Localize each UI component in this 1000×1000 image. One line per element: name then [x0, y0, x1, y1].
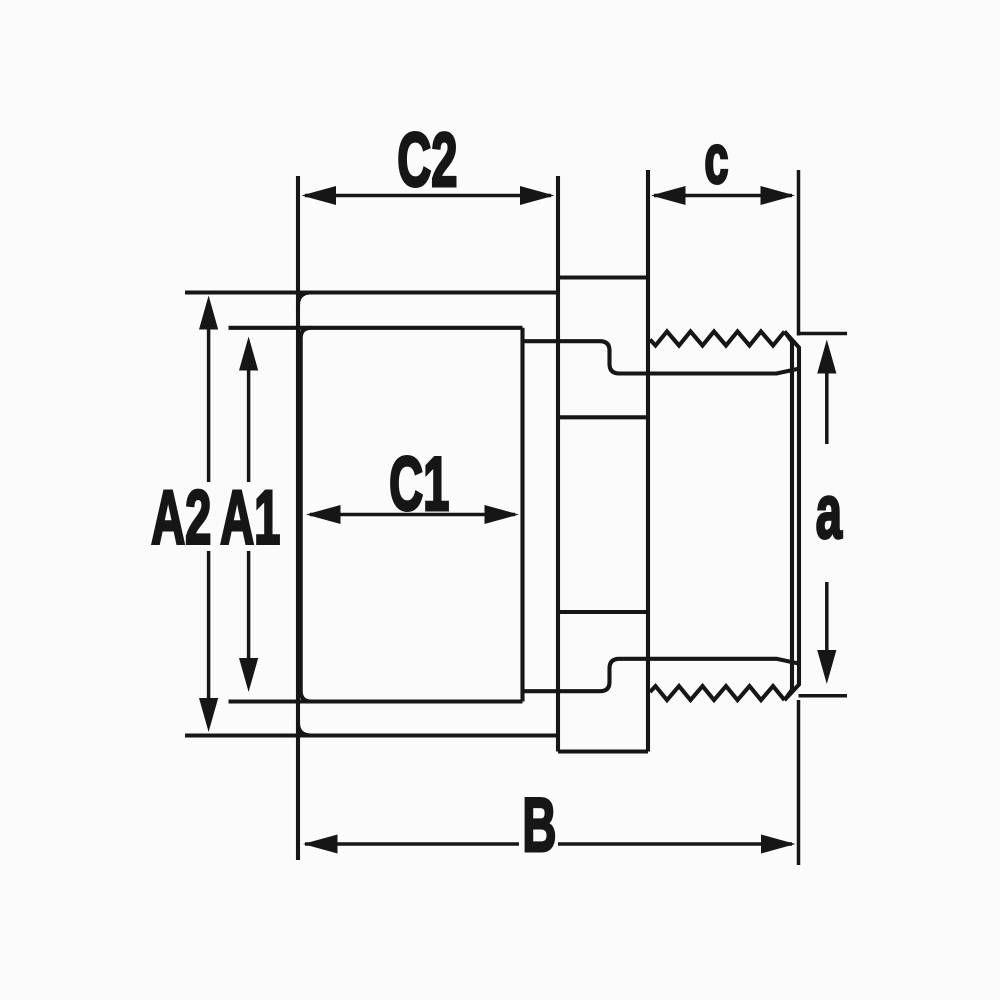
- dimension line C2: [305, 194, 551, 198]
- socket bore left edge with rounded corners: [301, 328, 311, 702]
- socket bore top line + A1 top extension: [229, 326, 523, 330]
- thread crest zigzag bottom: [650, 686, 785, 700]
- svg-text:A2: A2: [151, 476, 211, 560]
- arrowhead C2 left: [302, 186, 337, 205]
- wire: socket left edge + C2 left extension + B left extension (vertical x=298): [296, 176, 300, 860]
- socket bore bottom line + A1 bottom extension: [229, 699, 523, 703]
- svg-text:B: B: [522, 784, 556, 868]
- arrowhead A2 bottom: [199, 698, 218, 732]
- svg-text:C2: C2: [397, 119, 457, 203]
- socket body outer bottom line + A2 bottom extension: [185, 733, 558, 737]
- socket body outer top-left rounded corner: [298, 293, 311, 306]
- collar right edge + c left extension (vertical x=648): [646, 170, 650, 752]
- svg-text:a: a: [816, 471, 843, 555]
- socket body outer top line + A2 top extension: [185, 290, 558, 294]
- arrowhead A2 top: [199, 296, 218, 330]
- socket end wall (vertical x=522.5): [520, 328, 524, 702]
- socket body outer bottom-left rounded corner: [298, 723, 311, 736]
- hex flat lower line: [558, 610, 648, 614]
- dimension line a (gaps at label): [825, 372, 829, 444]
- hex flat upper line: [558, 415, 648, 419]
- arrowhead A1 bottom: [239, 658, 258, 692]
- collar top edge: [558, 275, 648, 279]
- dimension line B (gap at label): [305, 842, 519, 846]
- arrowhead a top: [817, 340, 836, 374]
- collar bottom edge: [558, 749, 648, 753]
- collar left edge + C2 right extension (vertical x=558): [556, 176, 560, 752]
- transition step upper (from socket end down to thread root): [523, 341, 799, 373]
- arrowhead A1 top: [239, 337, 258, 371]
- arrowhead C1 left: [306, 505, 341, 524]
- dimension line c: [654, 194, 792, 198]
- transition step lower: [523, 659, 799, 691]
- arrowhead B left: [303, 835, 338, 854]
- arrowhead c left: [651, 186, 686, 205]
- dimension line A2 (gaps at label): [207, 325, 211, 482]
- svg-text:C1: C1: [389, 443, 449, 527]
- svg-text:A1: A1: [220, 476, 280, 560]
- thread end face outer edge: [785, 332, 800, 701]
- arrowhead C2 right: [520, 186, 555, 205]
- dimension line A1 (gaps at label): [247, 369, 251, 482]
- thread crest zigzag top: [650, 332, 785, 346]
- a bottom extension line: [799, 694, 848, 698]
- arrowhead a bottom: [817, 650, 836, 684]
- arrowhead B right: [761, 835, 796, 854]
- arrowhead C1 right: [485, 505, 520, 524]
- arrowhead c right: [761, 186, 796, 205]
- a top extension line: [799, 332, 848, 336]
- thread end chamfer inner edge: [785, 332, 793, 701]
- svg-text:c: c: [704, 120, 728, 198]
- c right extension + B right extension (vertical x=798.5): [797, 170, 801, 336]
- dimension line C1: [310, 513, 515, 517]
